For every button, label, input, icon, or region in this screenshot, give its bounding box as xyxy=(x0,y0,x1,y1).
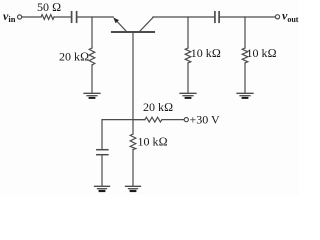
wire base junction down to R6 xyxy=(132,120,134,134)
wire node C down to R4 xyxy=(244,17,246,48)
wire C2 to v_out xyxy=(220,16,275,18)
svg-text:20 kΩ: 20 kΩ xyxy=(143,100,173,114)
wire base lead of Q1 xyxy=(132,33,134,119)
svg-text:10 kΩ: 10 kΩ xyxy=(138,135,168,149)
wire C3 to ground xyxy=(101,155,103,186)
wire node A down to R2 xyxy=(91,17,93,48)
capacitor C1 xyxy=(72,12,77,22)
ground (under R4) xyxy=(237,93,253,98)
resistor R4 10 kohm xyxy=(242,48,248,63)
resistor R2 20 kohm xyxy=(89,48,95,65)
capacitor C2 xyxy=(215,12,219,22)
wire base junction to R5 xyxy=(133,119,145,121)
resistor R5 20 kohm xyxy=(145,117,162,122)
wire C1 to emitter (node A) xyxy=(78,16,114,18)
wire R1 to C1 xyxy=(54,16,71,18)
resistor R1 50 ohm xyxy=(41,15,54,20)
svg-text:50 Ω: 50 Ω xyxy=(37,0,61,14)
svg-text:10 kΩ: 10 kΩ xyxy=(191,46,221,60)
transistor Q1 xyxy=(112,17,154,32)
wire collector rail to C2 xyxy=(153,16,214,18)
resistor R6 10 kohm xyxy=(130,134,136,150)
ground (under R6) xyxy=(126,186,141,191)
terminal v_in xyxy=(18,15,22,19)
svg-text:vin: vin xyxy=(3,9,16,24)
ground (under C3) xyxy=(95,186,110,191)
wire R5 to +30V terminal xyxy=(162,119,184,121)
wire R6 to ground xyxy=(132,150,134,187)
ground (under R2) xyxy=(84,93,100,98)
ground (under R3) xyxy=(180,93,196,98)
svg-text:+30 V: +30 V xyxy=(190,113,221,127)
wire R2 to ground xyxy=(91,65,93,93)
resistor R3 10 kohm xyxy=(185,48,191,63)
terminal +30 V xyxy=(184,118,188,122)
wire bottom rail left segment xyxy=(102,120,145,150)
wire R4 to ground xyxy=(244,63,246,93)
svg-text:20 kΩ: 20 kΩ xyxy=(59,50,89,64)
wire input to R1 xyxy=(22,16,41,18)
terminal v_out xyxy=(275,15,279,19)
svg-text:10 kΩ: 10 kΩ xyxy=(247,46,277,60)
wire R3 to ground xyxy=(187,63,189,93)
wire node B down to R3 xyxy=(187,17,189,48)
capacitor C3 xyxy=(97,150,108,155)
svg-text:vout: vout xyxy=(282,9,299,24)
